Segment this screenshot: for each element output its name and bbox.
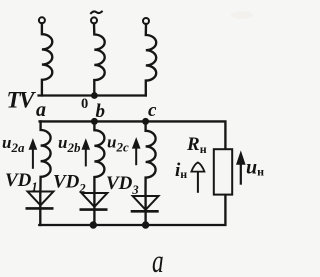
terminal circle phase B [91, 17, 97, 23]
svg-text:c: c [148, 100, 157, 121]
cathode bottom bus wire [39, 194, 225, 225]
svg-text:a: a [152, 244, 164, 277]
secondary winding b [94, 121, 104, 193]
voltage arrow u2b [85, 148, 87, 166]
resistor R_H load box [214, 149, 232, 194]
secondary top bus wire with right drop to load [40, 121, 226, 149]
primary winding phase A [42, 23, 52, 95]
node c junction dot [143, 118, 149, 124]
faint scan smudge top right [231, 11, 253, 19]
terminal circle phase C [143, 18, 149, 24]
voltage arrow u_H [240, 162, 242, 184]
junction dot VD2 on bus [90, 222, 96, 228]
voltage arrow u2a [32, 148, 34, 168]
secondary winding c [146, 121, 156, 196]
wire diode VD3 to cathode bus [144, 196, 146, 225]
caption a [152, 244, 164, 277]
primary winding phase B [94, 23, 105, 95]
svg-text:TV: TV [7, 88, 37, 113]
diode VD2 [82, 193, 108, 207]
wire diode VD2 to cathode bus [93, 193, 95, 225]
terminal circle phase A [39, 17, 45, 23]
secondary winding a [40, 121, 50, 191]
primary neutral bus wire [39, 94, 146, 96]
voltage arrow u2c [135, 146, 137, 164]
junction dot VD3 on bus [142, 222, 148, 228]
current arrow i_H [197, 173, 199, 192]
svg-text:b: b [96, 101, 106, 122]
AC tilde symbol [91, 11, 102, 13]
primary winding phase C [146, 24, 156, 96]
diode VD3 [133, 196, 159, 210]
wire diode VD1 to cathode bus [39, 192, 41, 226]
diode VD1 [28, 192, 54, 206]
svg-text:0: 0 [81, 96, 88, 112]
node b junction dot [91, 118, 97, 124]
svg-text:a: a [36, 99, 46, 121]
node 0 junction dot [92, 93, 98, 99]
